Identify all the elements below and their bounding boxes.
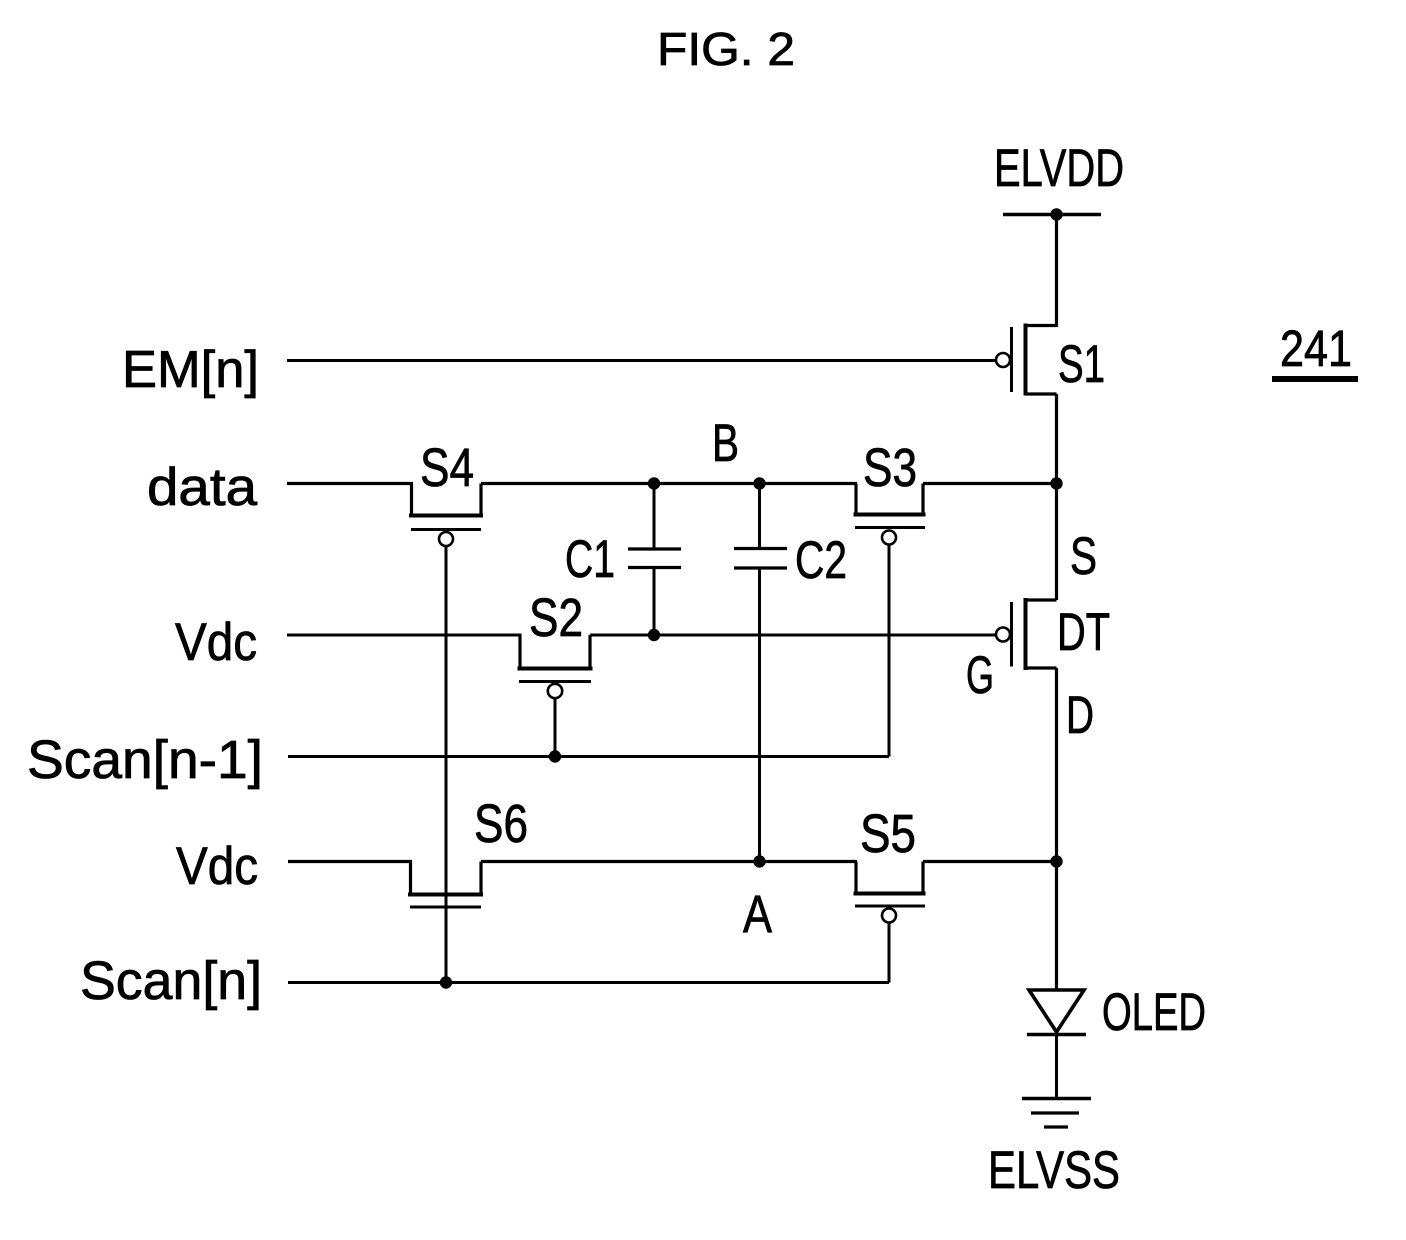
svg-text:G: G: [966, 646, 994, 705]
svg-text:data: data: [147, 458, 258, 517]
transistor DT: [996, 598, 1057, 670]
svg-text:Vdc: Vdc: [176, 837, 258, 896]
ground symbol ELVSS: [1022, 1099, 1091, 1128]
junction dot S2 gate on Scan[n-1]: [549, 750, 561, 762]
wire S4 gate to Scan[n]: [445, 545, 448, 983]
wire Vdc lower S6 to S5: [481, 860, 857, 863]
svg-text:S: S: [1070, 527, 1097, 586]
wire data S4 to S3: [481, 482, 857, 485]
svg-text:EM[n]: EM[n]: [122, 341, 259, 399]
reference numeral 241: [1272, 320, 1358, 382]
wire S2 gate to Scan[n-1]: [554, 698, 557, 757]
wire D line to OLED anode: [1055, 862, 1058, 992]
svg-text:S4: S4: [420, 438, 474, 498]
node B dot: [753, 477, 765, 489]
wire data S3 to S line: [923, 482, 1057, 485]
svg-text:S5: S5: [860, 804, 916, 864]
transistor S3: [854, 484, 926, 545]
wire S3 gate to Scan[n-1]: [888, 544, 891, 757]
svg-text:Vdc: Vdc: [175, 613, 257, 672]
capacitor C2: [734, 484, 787, 862]
svg-text:FIG. 2: FIG. 2: [657, 23, 795, 75]
svg-text:Scan[n-1]: Scan[n-1]: [27, 730, 263, 790]
wire D line DT to Vdc lower junction: [1055, 668, 1058, 862]
wire S5 gate to Scan[n]: [888, 922, 891, 983]
junction dot S6 gate wire on Scan[n]: [440, 976, 452, 988]
svg-text:D: D: [1066, 686, 1094, 745]
junction dot Vdc lower to D line: [1050, 855, 1062, 867]
svg-text:ELVSS: ELVSS: [988, 1141, 1120, 1200]
svg-text:S3: S3: [863, 438, 917, 498]
node A dot: [753, 855, 765, 867]
svg-text:C1: C1: [565, 530, 615, 589]
wire EM[n] to S1 gate: [287, 359, 996, 362]
junction dot C1 bottom: [648, 629, 660, 641]
capacitor C1: [628, 484, 681, 636]
svg-text:Scan[n]: Scan[n]: [80, 951, 262, 1011]
wire Vdc lower left: [288, 860, 412, 863]
transistor S5: [854, 862, 926, 923]
wire ELVDD rail: [1003, 213, 1101, 217]
svg-text:S6: S6: [474, 794, 528, 854]
svg-text:DT: DT: [1057, 603, 1110, 662]
svg-text:A: A: [743, 885, 773, 944]
wire OLED cathode to ground: [1055, 1035, 1058, 1099]
svg-text:S2: S2: [529, 588, 583, 648]
transistor S2: [518, 635, 593, 698]
junction dot data to S1/DT line: [1050, 477, 1062, 489]
svg-text:OLED: OLED: [1102, 983, 1206, 1042]
wire Vdc upper left: [287, 634, 522, 637]
transistor S4: [409, 484, 483, 547]
wire S line between data junction and DT: [1055, 484, 1058, 601]
svg-text:B: B: [712, 414, 739, 473]
svg-text:241: 241: [1280, 320, 1352, 377]
wire Vdc lower S5 to D line: [923, 860, 1057, 863]
diode OLED: [1027, 990, 1086, 1035]
transistor S6: [408, 862, 483, 908]
wire data line left: [287, 482, 413, 485]
svg-text:C2: C2: [795, 531, 847, 590]
junction dot C1 top: [648, 477, 660, 489]
svg-text:ELVDD: ELVDD: [994, 139, 1124, 198]
wire ELVDD to S1 source: [1055, 215, 1058, 328]
transistor S1: [996, 324, 1057, 396]
wire S1 drain to data junction: [1055, 394, 1058, 484]
wire Vdc upper S2 to DT gate: [590, 634, 996, 637]
wire Scan[n-1]: [288, 755, 889, 758]
wire Scan[n]: [288, 981, 889, 984]
junction dot ELVDD: [1050, 208, 1062, 220]
svg-text:S1: S1: [1058, 335, 1105, 394]
